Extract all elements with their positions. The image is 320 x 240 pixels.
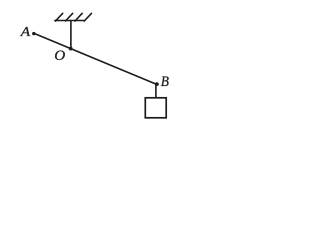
svg-text:A: A [20, 24, 31, 39]
svg-text:B: B [161, 74, 170, 90]
svg-text:O: O [54, 47, 65, 64]
